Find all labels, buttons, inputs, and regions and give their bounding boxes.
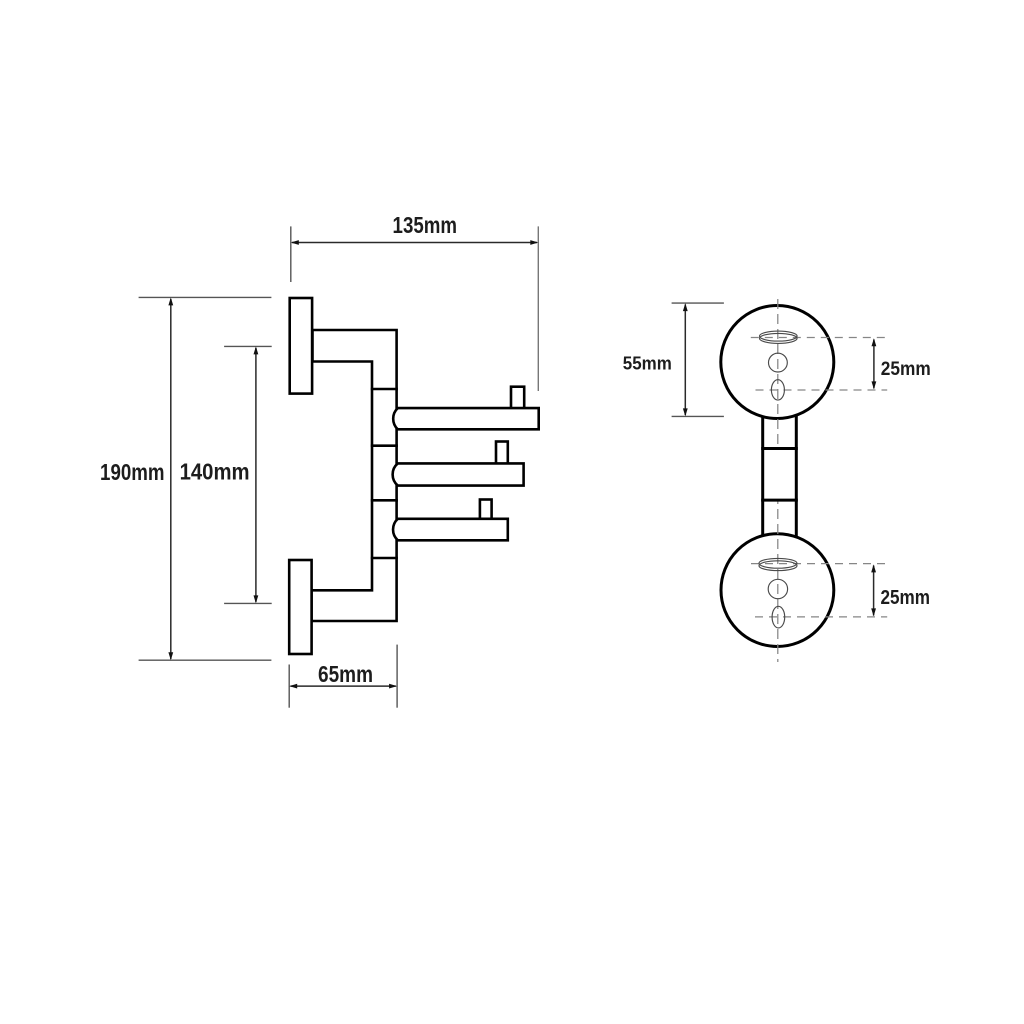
- center line slot bottom: [751, 563, 887, 565]
- svg-text:25mm: 25mm: [880, 587, 930, 609]
- bar joint top: [761, 447, 798, 450]
- screw hole top mid: [769, 353, 788, 372]
- svg-text:25mm: 25mm: [881, 359, 931, 380]
- connecting bar right edge: [795, 416, 798, 536]
- dim 65mm: [289, 645, 397, 708]
- svg-text:135mm: 135mm: [393, 212, 458, 238]
- connecting bar left edge: [761, 416, 764, 536]
- dim 55mm: [623, 303, 724, 416]
- top knob circle: [721, 306, 834, 419]
- dim 140mm: [180, 346, 272, 603]
- screw hole bottom mid: [768, 579, 787, 598]
- post joint 3: [371, 499, 398, 502]
- post joint 2: [371, 444, 398, 447]
- svg-text:190mm: 190mm: [100, 459, 165, 485]
- hook peg 1: [511, 387, 524, 409]
- bar joint bottom: [761, 499, 798, 502]
- center line vertical: [777, 299, 779, 662]
- wall plate top: [290, 298, 312, 394]
- dim 25mm bottom: [871, 564, 930, 616]
- center line hole top: [756, 389, 888, 391]
- wall plate bottom: [289, 560, 311, 654]
- hook arm 2: [393, 463, 524, 485]
- dim 135mm: [291, 212, 539, 391]
- screw hole bottom lower: [772, 606, 785, 628]
- slot bottom: [759, 558, 797, 570]
- bottom knob circle: [721, 534, 834, 647]
- svg-text:65mm: 65mm: [318, 661, 373, 687]
- screw hole top lower: [771, 380, 784, 400]
- dim 190mm: [100, 297, 271, 660]
- slot top: [760, 331, 798, 343]
- hook arm 3: [393, 519, 508, 541]
- hook arm 1: [393, 408, 539, 429]
- post joint 4: [371, 557, 398, 560]
- svg-text:140mm: 140mm: [180, 459, 250, 485]
- center line hole bottom: [755, 616, 887, 618]
- connecting bar middle segment: [764, 449, 795, 501]
- post joint 1: [371, 388, 398, 391]
- svg-text:55mm: 55mm: [623, 354, 672, 374]
- hook peg 2: [496, 442, 508, 464]
- dim 25mm top: [872, 338, 931, 389]
- arm and post silhouette: [312, 330, 397, 621]
- hook peg 3: [480, 500, 492, 520]
- center line slot top: [751, 337, 887, 339]
